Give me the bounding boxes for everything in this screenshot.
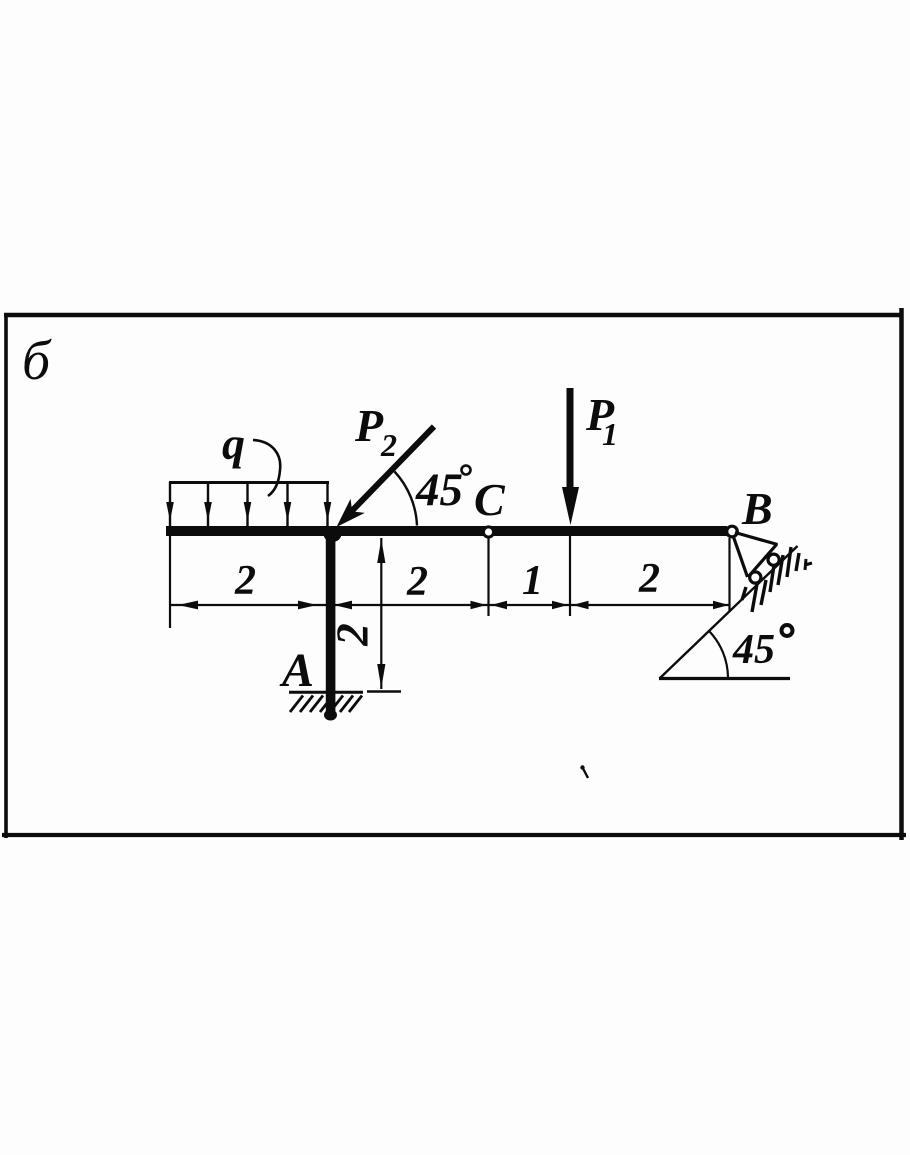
load arrowhead 5 [324,502,332,521]
distributed load tick 5 [326,482,328,528]
dim arrow left from joint [334,601,352,610]
force P2 arrowhead [337,499,365,527]
inclined surface line [660,546,798,679]
roller support triangle left edge [734,537,748,577]
roller support triangle top edge [735,533,778,545]
force P1 arrowhead [562,487,579,525]
dimension chain line [170,604,730,606]
vertical dim arrow down [377,664,385,688]
joint blob at column top [324,526,342,542]
incline hatch 7 [796,553,799,571]
incline hatch 4 [770,565,774,592]
incline hatch 3 [761,580,766,605]
beam AB horizontal member [166,526,727,536]
svg-text:2: 2 [327,623,377,647]
incline hatch 6 [787,547,791,577]
ground hatch A 1 [290,696,303,713]
force P2 shaft [346,427,434,518]
roller circle upper [768,554,779,565]
frame border bottom [2,833,906,837]
degree circle at B [782,625,793,636]
ground hatch A 5 [330,696,343,713]
svg-text:C: C [474,474,506,525]
svg-text:A: A [279,644,314,697]
ground hatch A 3 [310,696,323,713]
svg-text:б: б [22,330,52,392]
svg-text:2: 2 [380,427,397,463]
force P1 shaft [567,388,574,496]
dim arrow left from C [491,601,507,609]
extension line at P1 [569,536,571,616]
load arrowhead 1 [166,502,174,521]
ground line at A [289,691,363,694]
svg-text:45: 45 [415,464,463,516]
dim arrow right toward P1 [552,601,568,609]
incline hatch 2 [752,584,757,612]
degree circle at P2 [462,466,471,475]
distributed load tick 2 [207,482,209,528]
incline hatch 8 [805,559,812,570]
ground hatch A 6 [340,696,353,713]
svg-text:P: P [354,400,384,451]
stray ink mark [580,765,584,769]
svg-text:1: 1 [522,558,543,604]
incline hatch 5 [778,555,783,585]
column member below joint (to A) [326,527,336,716]
dim arrow right toward B [713,601,729,609]
ground hatch A 2 [300,696,313,713]
dim arrow right toward joint [298,601,317,610]
incline hatch 1 [742,587,746,600]
roller circle lower [750,572,761,583]
column bottom end blob at A [324,710,337,721]
vertical dimension line at column [380,538,382,689]
svg-text:1: 1 [602,416,618,452]
load arrowhead 4 [284,502,292,521]
svg-text:45: 45 [732,627,775,673]
ground hatch A 7 [349,696,362,713]
vertical dim bottom tick [367,690,401,693]
frame border top [4,313,903,318]
ground hatch A 4 [320,696,333,713]
frame border left [4,313,8,838]
frame border right [899,308,904,840]
load arrowhead 2 [204,502,212,521]
distributed load q top line [169,481,329,484]
distributed load tick 3 [246,482,248,528]
extension line at B [728,538,730,612]
extension line at C [487,538,489,616]
distributed load tick 4 [286,482,288,528]
roller support triangle base edge [748,544,777,577]
load arrowhead 3 [244,502,252,521]
svg-text:2: 2 [234,558,256,604]
q leader line [253,440,280,496]
distributed load tick 1 [169,482,171,528]
extension line at left end [169,533,171,628]
45 degree arc at B [710,632,729,678]
svg-text:2: 2 [638,556,660,602]
svg-text:B: B [741,483,773,534]
vertical dim arrow up [377,539,385,563]
svg-text:2: 2 [406,559,428,605]
svg-text:q: q [222,418,245,469]
ground line at B [659,677,790,680]
node B circle [727,526,738,537]
node C circle [483,527,493,537]
dim arrow right toward C [471,601,487,609]
45 degree arc at P2 [395,472,418,526]
dim arrow left from P1 [573,601,589,609]
dim arrow left end [178,601,198,610]
